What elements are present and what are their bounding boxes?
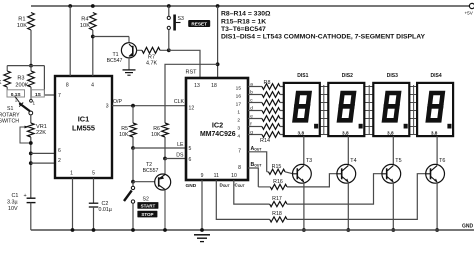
switch S3 bbox=[167, 15, 184, 31]
wire pole to VR1 bbox=[30, 115, 32, 123]
svg-text:ROTARY: ROTARY bbox=[0, 112, 20, 118]
svg-text:10: 10 bbox=[231, 173, 237, 179]
svg-text:R15: R15 bbox=[272, 164, 282, 170]
svg-text:DS: DS bbox=[176, 153, 184, 159]
wire +5V top rail bbox=[31, 5, 469, 7]
wire segment bus bbox=[284, 87, 417, 135]
svg-text:3.3µ: 3.3µ bbox=[7, 200, 18, 206]
svg-text:IC2: IC2 bbox=[212, 120, 223, 129]
resistor R9 segment b bbox=[248, 90, 284, 98]
svg-text:3,8: 3,8 bbox=[298, 130, 305, 135]
op-amp IC1 LM555 body bbox=[55, 76, 112, 178]
svg-text:6: 6 bbox=[189, 157, 192, 163]
display DIS1 bbox=[284, 73, 320, 136]
svg-text:COUT: COUT bbox=[235, 183, 245, 189]
svg-text:S2: S2 bbox=[143, 197, 149, 203]
wire to IC1 pin6 bbox=[31, 152, 55, 154]
wire IC1 pin4 up bbox=[92, 37, 94, 77]
wire rail to IC2 pin18 bbox=[217, 6, 219, 78]
label GND bbox=[462, 224, 474, 230]
svg-text:9: 9 bbox=[201, 173, 204, 179]
transistor T2 bbox=[143, 159, 171, 231]
node rail-S3 junction bbox=[167, 4, 171, 8]
svg-text:5: 5 bbox=[92, 170, 95, 176]
svg-text:g: g bbox=[250, 130, 253, 135]
svg-text:7: 7 bbox=[58, 93, 61, 99]
node R6-DS junction bbox=[163, 157, 167, 161]
wire Cout to R17 bbox=[234, 180, 270, 204]
wire S3 to IC2 pin13 bbox=[168, 30, 170, 51]
svg-text:STOP: STOP bbox=[141, 212, 153, 217]
switch S1 contact 2 bbox=[15, 97, 22, 106]
wire DIS2 cathode bbox=[347, 136, 349, 164]
svg-text:T6: T6 bbox=[439, 158, 445, 164]
transistor T6 bbox=[426, 158, 446, 183]
svg-text:200K: 200K bbox=[15, 83, 28, 89]
switch S1 contact 1 bbox=[30, 99, 36, 105]
label Cout bbox=[235, 183, 245, 189]
svg-text:DOUT: DOUT bbox=[220, 183, 230, 189]
svg-text:START: START bbox=[141, 204, 156, 209]
svg-text:18: 18 bbox=[211, 83, 217, 89]
svg-text:MM74C926: MM74C926 bbox=[200, 131, 236, 138]
wire ground rail bbox=[31, 229, 474, 231]
switch S1 lever bbox=[19, 103, 30, 112]
transistor T4 bbox=[337, 158, 357, 183]
node pin18 branch junction bbox=[216, 62, 220, 66]
label RST bbox=[186, 69, 198, 75]
display DIS2 bbox=[328, 73, 364, 136]
label 1S timebase bbox=[32, 90, 45, 98]
svg-text:BOUT: BOUT bbox=[251, 162, 263, 168]
node rail-IC1pin8 junction bbox=[68, 4, 72, 8]
label O/P bbox=[113, 99, 122, 105]
svg-text:DIS1–DIS4 = LT543 COMMON-CATHO: DIS1–DIS4 = LT543 COMMON-CATHODE, 7-SEGM… bbox=[221, 34, 425, 41]
svg-text:10K: 10K bbox=[151, 132, 161, 138]
wire Ra junction to IC1 pin7 bbox=[44, 66, 55, 95]
transistor T3 bbox=[293, 158, 313, 183]
svg-text:CLK: CLK bbox=[174, 99, 185, 105]
wire R18 to T6 base bbox=[287, 174, 426, 220]
node rail-IC2pin18 junction bbox=[216, 4, 220, 8]
resistor R11 segment d bbox=[248, 106, 284, 114]
resistor R5 bbox=[119, 106, 136, 138]
node R7-S3 junction bbox=[167, 48, 171, 52]
svg-text:RST: RST bbox=[186, 69, 198, 75]
svg-text:1: 1 bbox=[70, 170, 73, 176]
capacitor C2 bbox=[89, 201, 112, 213]
label CLK bbox=[174, 99, 185, 105]
resistor R15 bbox=[267, 164, 285, 175]
svg-text:R18: R18 bbox=[272, 211, 282, 217]
resistor R10 segment c bbox=[248, 98, 284, 106]
transistor T5 bbox=[382, 158, 402, 183]
svg-text:O/P: O/P bbox=[113, 99, 122, 105]
svg-text:2: 2 bbox=[58, 158, 61, 164]
svg-text:16: 16 bbox=[236, 94, 242, 100]
wire bus gap1 bbox=[323, 85, 325, 135]
node T2 base junction bbox=[131, 180, 135, 184]
node T4 ground junction bbox=[346, 228, 350, 232]
node T6 ground junction bbox=[435, 228, 439, 232]
svg-text:AOUT: AOUT bbox=[251, 146, 263, 152]
resistor R2 bbox=[0, 66, 11, 97]
wire S2 to ground rail bbox=[132, 203, 134, 230]
resistor R4 bbox=[80, 13, 96, 37]
node VR1 bottom junction bbox=[29, 141, 33, 145]
label component values bbox=[221, 11, 425, 41]
svg-text:LE: LE bbox=[177, 142, 184, 148]
wire branch to R6 column bbox=[165, 64, 218, 123]
svg-text:10K: 10K bbox=[17, 23, 27, 29]
svg-text:+5V: +5V bbox=[465, 11, 474, 16]
svg-text:T4: T4 bbox=[350, 158, 356, 164]
node S2 ground junction bbox=[131, 228, 135, 232]
svg-text:3,8: 3,8 bbox=[387, 130, 394, 135]
label START bbox=[137, 202, 158, 209]
resistor R16 bbox=[258, 179, 287, 190]
svg-text:4: 4 bbox=[91, 83, 94, 89]
svg-text:T5: T5 bbox=[395, 158, 401, 164]
svg-text:13: 13 bbox=[194, 83, 200, 89]
svg-text:DIS4: DIS4 bbox=[431, 73, 442, 79]
resistor R1 bbox=[17, 13, 34, 31]
label R14 bbox=[260, 138, 270, 144]
svg-text:6: 6 bbox=[58, 148, 61, 154]
svg-text:BC547: BC547 bbox=[107, 58, 123, 64]
wire DIS4 cathode bbox=[436, 136, 438, 164]
node pin6 tap bbox=[29, 152, 33, 156]
switch S1 pole bbox=[29, 111, 33, 115]
svg-text:R8: R8 bbox=[264, 80, 271, 86]
label Aout bbox=[251, 146, 263, 152]
label STOP bbox=[137, 211, 157, 218]
svg-text:LM555: LM555 bbox=[72, 124, 95, 133]
svg-text:8: 8 bbox=[66, 83, 69, 89]
svg-text:R15–R18 = 1K: R15–R18 = 1K bbox=[221, 18, 266, 25]
node OP-R5 junction bbox=[131, 104, 135, 108]
resistor R3 bbox=[15, 66, 34, 99]
wire IC1 pin5 down bbox=[93, 178, 95, 203]
switch S2 bbox=[124, 186, 149, 203]
node pin2 tap bbox=[29, 161, 33, 165]
svg-text:T3: T3 bbox=[306, 158, 312, 164]
node T5 ground junction bbox=[391, 228, 395, 232]
svg-text:17: 17 bbox=[236, 102, 242, 108]
wire T3 emitter to ground rail bbox=[303, 182, 305, 230]
svg-text:5: 5 bbox=[189, 146, 192, 152]
label R8 bbox=[264, 80, 271, 86]
svg-text:3,8: 3,8 bbox=[431, 130, 438, 135]
wire T2 base bbox=[133, 181, 159, 183]
svg-text:VR1: VR1 bbox=[36, 124, 47, 130]
svg-text:IC1: IC1 bbox=[78, 114, 90, 123]
wire bus gap3 bbox=[413, 85, 415, 135]
svg-text:S1: S1 bbox=[7, 106, 13, 112]
wire R16 to T4 base bbox=[287, 174, 337, 187]
svg-text:R16: R16 bbox=[273, 179, 283, 185]
wire T6 emitter to ground rail bbox=[436, 182, 438, 230]
resistor R14 segment g bbox=[248, 130, 284, 138]
resistor R8 segment a bbox=[248, 82, 284, 90]
svg-text:R14: R14 bbox=[260, 138, 270, 144]
wire IC1 pin8 to rail bbox=[69, 6, 71, 76]
svg-text:R1: R1 bbox=[18, 17, 25, 23]
ground T1 emitter bbox=[123, 70, 136, 75]
wire S3/R7 to pin13 bbox=[169, 50, 200, 78]
svg-text:3: 3 bbox=[106, 103, 109, 109]
wire R4 junction to T1 collector bbox=[93, 36, 129, 38]
svg-text:R17: R17 bbox=[272, 196, 282, 202]
label DS bbox=[176, 153, 184, 159]
wire T4 emitter to ground rail bbox=[347, 182, 349, 230]
svg-text:RESET: RESET bbox=[191, 22, 207, 27]
svg-text:3,8: 3,8 bbox=[342, 130, 349, 135]
wire T2 base to S2 bbox=[132, 182, 134, 186]
resistor R12 segment e bbox=[248, 114, 284, 122]
svg-text:10V: 10V bbox=[8, 206, 18, 212]
svg-text:7: 7 bbox=[238, 148, 241, 154]
node IC2 ground junction bbox=[200, 228, 204, 232]
svg-text:1: 1 bbox=[33, 101, 36, 106]
svg-text:22K: 22K bbox=[36, 130, 46, 136]
svg-text:1S: 1S bbox=[35, 92, 42, 98]
transistor T1 bbox=[107, 37, 142, 70]
svg-text:a: a bbox=[250, 82, 253, 87]
display DIS3 bbox=[373, 73, 409, 136]
svg-text:DIS1: DIS1 bbox=[297, 73, 308, 79]
wire S3 to rail bbox=[168, 6, 170, 16]
wire DIS3 cathode bbox=[392, 136, 394, 164]
label LE bbox=[177, 142, 184, 148]
wire Aout to R15 bbox=[248, 152, 267, 172]
wire R15 to T3 base bbox=[285, 172, 293, 174]
svg-text:d: d bbox=[250, 106, 253, 111]
label GND IC2 bbox=[186, 183, 197, 189]
ground symbol bbox=[194, 235, 210, 242]
wire C1 to ground rail bbox=[30, 203, 32, 230]
svg-text:GND: GND bbox=[186, 183, 197, 189]
svg-text:BC557: BC557 bbox=[143, 168, 159, 174]
wire timing top bar bbox=[7, 65, 44, 67]
svg-text:3: 3 bbox=[237, 126, 240, 132]
capacitor C1 bbox=[7, 193, 36, 212]
wire Bout to R16 bbox=[248, 168, 258, 187]
svg-text:S3: S3 bbox=[178, 16, 184, 22]
label Bout bbox=[251, 162, 263, 168]
svg-text:C2: C2 bbox=[102, 201, 109, 207]
svg-text:DIS3: DIS3 bbox=[387, 73, 398, 79]
op-amp IC2 MM74C926 body bbox=[186, 78, 248, 180]
node R5-LE junction bbox=[131, 146, 135, 150]
svg-text:12: 12 bbox=[189, 106, 195, 112]
svg-text:+: + bbox=[24, 193, 27, 199]
node T2 ground junction bbox=[163, 228, 167, 232]
svg-text:C1: C1 bbox=[12, 193, 19, 199]
label 0,1S timebase bbox=[7, 90, 25, 98]
resistor R18 bbox=[270, 211, 287, 222]
svg-text:4.7K: 4.7K bbox=[146, 60, 157, 66]
svg-text:11: 11 bbox=[214, 173, 219, 179]
wire T5 emitter to ground rail bbox=[392, 182, 394, 230]
wire IC1 pin1 down bbox=[72, 178, 74, 230]
node T3 ground junction bbox=[302, 228, 306, 232]
wire IC2 pin9 down bbox=[201, 180, 203, 230]
wire Dout to R18 bbox=[216, 180, 269, 219]
resistor R17 bbox=[270, 196, 287, 207]
svg-text:R4: R4 bbox=[81, 17, 88, 23]
resistor R7 bbox=[142, 47, 169, 66]
svg-text:GND: GND bbox=[462, 224, 474, 230]
label S1 ROTARY SWITCH bbox=[0, 106, 20, 125]
node C2 ground junction bbox=[92, 228, 96, 232]
svg-text:R3: R3 bbox=[17, 76, 24, 82]
wire DS line bbox=[165, 158, 186, 160]
svg-text:1: 1 bbox=[237, 110, 240, 116]
resistor R6 bbox=[151, 123, 168, 138]
wire to IC1 pin2 bbox=[31, 162, 55, 164]
wire R5 column to T2 base bbox=[132, 148, 134, 182]
svg-text:b: b bbox=[250, 90, 253, 95]
resistor R13 segment f bbox=[248, 122, 284, 130]
svg-text:T3–T6=BC547: T3–T6=BC547 bbox=[221, 26, 266, 33]
wire DIS1 cathode bbox=[303, 136, 305, 164]
node R1-R2-R3 junction bbox=[29, 64, 33, 68]
svg-text:SWITCH: SWITCH bbox=[0, 119, 19, 125]
label RESET bbox=[188, 20, 210, 27]
svg-text:DIS2: DIS2 bbox=[342, 73, 353, 79]
label Dout bbox=[220, 183, 230, 189]
node rail-R4 junction bbox=[91, 4, 95, 8]
wire C2 to ground rail bbox=[93, 207, 95, 230]
svg-text:0.01µ: 0.01µ bbox=[99, 207, 112, 213]
svg-text:15: 15 bbox=[236, 86, 242, 92]
svg-text:8: 8 bbox=[238, 165, 241, 171]
wire R17 to T5 base bbox=[287, 174, 382, 204]
wire O/P IC1 pin3 to IC2 pin12 CLK bbox=[112, 105, 186, 107]
svg-text:10K: 10K bbox=[80, 23, 90, 29]
display DIS4 bbox=[417, 73, 453, 136]
svg-text:e: e bbox=[250, 114, 253, 119]
svg-text:2: 2 bbox=[237, 118, 240, 124]
node IC1 pin1 ground junction bbox=[71, 228, 75, 232]
svg-text:R8–R14 = 330Ω: R8–R14 = 330Ω bbox=[221, 11, 271, 18]
svg-text:10K: 10K bbox=[119, 132, 129, 138]
wire LE line bbox=[133, 147, 186, 149]
terminal +5V bbox=[465, 3, 474, 15]
wire bus gap2 bbox=[368, 85, 370, 135]
wire R5 to LE line bbox=[132, 137, 134, 148]
node R4-pin4-T1 junction bbox=[91, 35, 95, 39]
wire R1 bottom to bar bbox=[30, 30, 32, 66]
wire VR1 to C1 bbox=[30, 137, 32, 198]
svg-text:4: 4 bbox=[237, 134, 240, 140]
potentiometer VR1 bbox=[20, 123, 47, 143]
wire R6 to DS line bbox=[164, 137, 166, 159]
